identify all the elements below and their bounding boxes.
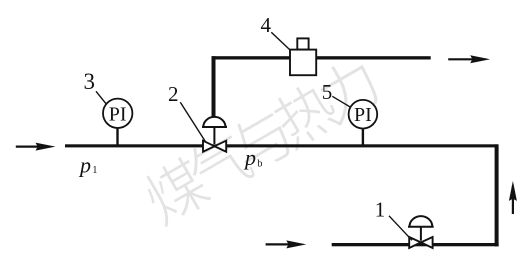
wire: branch vertical to valve 2 actuator: [212, 56, 216, 116]
gauge PI 3: [103, 99, 132, 128]
svg-text:PI: PI: [109, 103, 127, 125]
label 1: [375, 197, 386, 221]
svg-text:p: p: [243, 145, 256, 170]
leader line 2: [180, 102, 206, 142]
valve 2 stem: [213, 127, 215, 144]
valve 2 actuator dome: [202, 117, 227, 127]
leader line 1: [389, 216, 412, 241]
leader line 5: [332, 96, 350, 107]
gauge PI 3 stem: [116, 127, 118, 145]
wire: main pipe p1 to corner: [65, 144, 498, 147]
svg-text:p: p: [78, 153, 91, 178]
arrow: up flow right side: [509, 181, 517, 214]
gauge PI 5 stem: [362, 127, 364, 145]
svg-text:5: 5: [322, 80, 333, 104]
regulator 4 small top box: [297, 38, 308, 49]
svg-text:PI: PI: [354, 104, 372, 126]
arrow: inlet flow left: [16, 143, 56, 151]
leader line 4: [271, 32, 290, 50]
label 4: [261, 13, 272, 37]
svg-text:4: 4: [261, 13, 272, 37]
svg-text:b: b: [257, 159, 262, 170]
watermark 煤气与热力: [138, 53, 383, 228]
label pb: [243, 145, 263, 170]
arrow: bottom inlet flow right: [266, 240, 307, 248]
gauge PI 5: [349, 100, 378, 129]
arrow: top outlet flow right: [448, 55, 490, 63]
valve 2 body: [203, 141, 226, 152]
valve 1 stem: [420, 227, 422, 241]
label 2: [168, 82, 179, 106]
regulator 4 body box: [290, 50, 316, 76]
wire: right vertical pipe: [495, 144, 499, 246]
label p1: [78, 153, 97, 178]
wire: bottom pipe: [332, 243, 499, 246]
svg-text:1: 1: [375, 197, 386, 221]
svg-text:1: 1: [92, 165, 97, 176]
label 3: [84, 69, 96, 94]
valve 1 body: [409, 237, 432, 248]
svg-text:2: 2: [168, 82, 179, 106]
label 5: [322, 80, 333, 104]
leader line 3: [96, 91, 107, 104]
wire: top bypass line: [212, 56, 431, 59]
svg-text:3: 3: [84, 69, 96, 94]
valve 1 actuator dome: [408, 216, 434, 227]
